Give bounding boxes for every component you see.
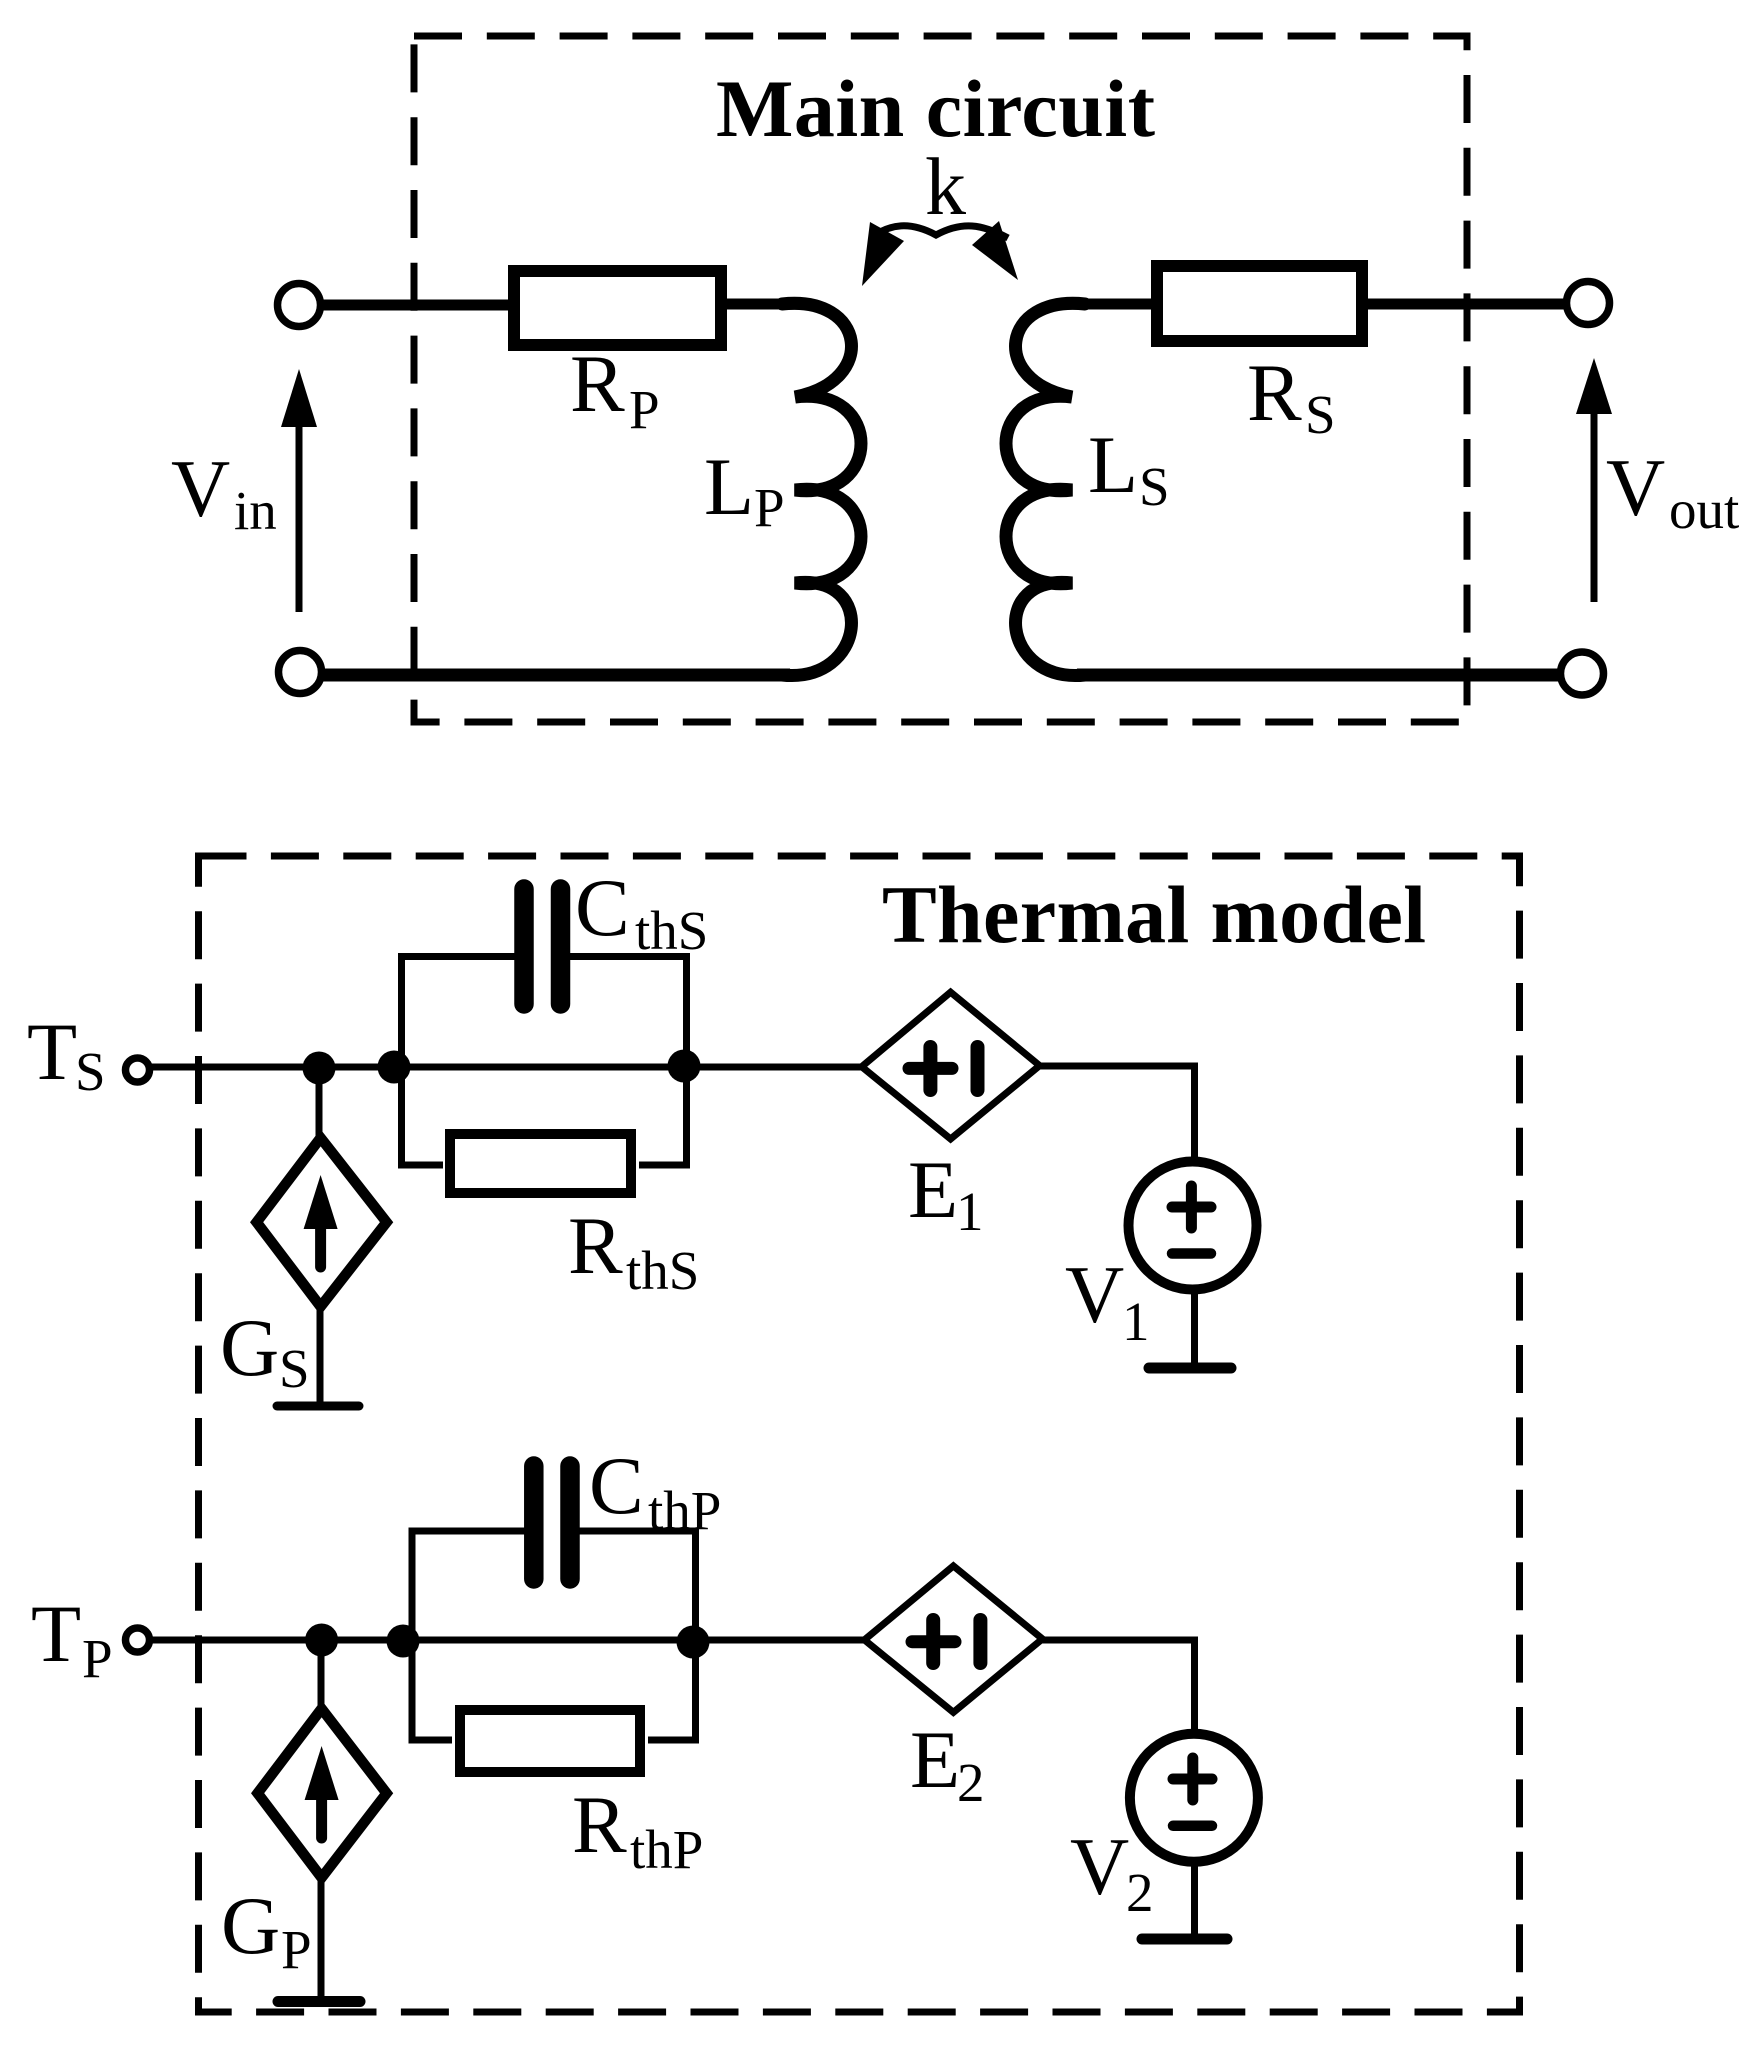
svg-text:L: L	[704, 441, 754, 532]
svg-text:T: T	[27, 1006, 77, 1097]
current source GP	[258, 1709, 387, 1878]
value label R_P	[570, 338, 660, 440]
value label C_thP	[589, 1440, 721, 1541]
svg-text:thS: thS	[635, 900, 708, 961]
wire V2 to ground	[1191, 1861, 1198, 1934]
wire V1 to ground	[1191, 1289, 1198, 1363]
resistor RP	[514, 271, 721, 345]
svg-text:T: T	[31, 1588, 81, 1679]
wire bottom-left	[322, 669, 790, 682]
svg-text:C: C	[589, 1440, 644, 1531]
label V_2	[1070, 1821, 1154, 1923]
ground (GS)	[277, 1402, 359, 1411]
svg-text:2: 2	[957, 1752, 985, 1813]
capacitor CthS plates	[514, 889, 534, 1004]
svg-text:V: V	[171, 443, 230, 534]
svg-text:S: S	[279, 1338, 310, 1399]
svg-text:1: 1	[956, 1181, 984, 1242]
terminal TP	[126, 1628, 150, 1652]
capacitor CthP plates	[524, 1466, 544, 1579]
value label R_thS	[568, 1200, 699, 1301]
resistor RthS	[450, 1134, 631, 1193]
junction node TS/GS	[303, 1052, 336, 1085]
svg-text:in: in	[234, 480, 277, 541]
ground (GP)	[278, 1996, 360, 2007]
controlled source E1	[862, 992, 1040, 1139]
junction node RC-right (S)	[668, 1050, 701, 1083]
wire bottom-right	[1077, 669, 1561, 682]
svg-text:S: S	[75, 1041, 106, 1102]
svg-text:E: E	[908, 1144, 958, 1235]
svg-text:G: G	[220, 1302, 279, 1393]
svg-text:out: out	[1669, 479, 1739, 540]
controlled source E2	[864, 1566, 1042, 1712]
inductor LP	[782, 303, 861, 675]
svg-text:P: P	[82, 1628, 113, 1689]
svg-text:S: S	[1139, 456, 1170, 517]
current source GS	[257, 1138, 387, 1307]
svg-text:R: R	[570, 338, 625, 429]
svg-text:C: C	[575, 862, 630, 953]
value label C_thS	[575, 862, 708, 961]
value label R_S	[1247, 347, 1336, 445]
value label R_thP	[572, 1779, 703, 1880]
wire GP to ground	[318, 1877, 325, 1997]
svg-text:L: L	[1088, 419, 1138, 510]
label G_P	[221, 1880, 312, 1980]
svg-text:R: R	[568, 1200, 623, 1291]
source V1	[1129, 1162, 1257, 1290]
svg-text:P: P	[754, 477, 785, 538]
svg-text:k: k	[925, 141, 966, 232]
terminal TS	[126, 1058, 150, 1082]
terminal bottom-right	[1561, 652, 1604, 695]
resistor RthP	[460, 1710, 640, 1772]
junction node TP/GP	[305, 1624, 338, 1657]
value label L_S	[1088, 419, 1170, 517]
svg-text:thS: thS	[626, 1240, 699, 1301]
node TP label	[31, 1588, 113, 1689]
terminal bottom-left	[279, 651, 322, 694]
label E_2	[910, 1714, 985, 1813]
junction node RC-right (P)	[677, 1626, 710, 1659]
svg-text:V: V	[1065, 1249, 1124, 1340]
svg-text:P: P	[629, 379, 660, 440]
svg-text:R: R	[1247, 347, 1302, 438]
junction node RC-left (P)	[387, 1625, 420, 1658]
label E_1	[908, 1144, 984, 1242]
coupling arrow k	[862, 221, 1018, 286]
Vin arrow	[281, 369, 317, 612]
svg-text:S: S	[1305, 384, 1336, 445]
wire TS to E1	[150, 1064, 863, 1071]
svg-text:V: V	[1606, 442, 1665, 533]
value label L_P	[704, 441, 785, 538]
ground (V1)	[1149, 1363, 1231, 1374]
svg-text:P: P	[281, 1919, 312, 1980]
svg-text:2: 2	[1126, 1862, 1154, 1923]
wire TS node to GS	[316, 1068, 323, 1140]
node TS label	[27, 1006, 106, 1102]
source V2	[1130, 1734, 1258, 1862]
dashed box Thermal model	[199, 856, 1520, 2012]
resistor RS	[1157, 266, 1362, 341]
wire LS to RS	[1075, 299, 1157, 310]
RC loop wires (S)	[402, 957, 687, 1166]
label V_1	[1065, 1249, 1150, 1352]
wire TP to E2	[150, 1637, 866, 1644]
wire TP node to GP	[318, 1641, 325, 1711]
svg-text:thP: thP	[630, 1819, 703, 1880]
dashed box Main circuit	[414, 36, 1467, 722]
wire E2 to V2	[1042, 1640, 1194, 1735]
ground (V2)	[1142, 1934, 1227, 1945]
terminal top-right	[1567, 282, 1610, 325]
svg-text:1: 1	[1122, 1291, 1150, 1352]
junction node RC-left (S)	[378, 1051, 411, 1084]
wire GS to ground	[317, 1306, 324, 1402]
svg-text:E: E	[910, 1714, 960, 1805]
svg-text:Thermal model: Thermal model	[882, 869, 1426, 960]
wire top-left	[323, 300, 514, 311]
label V_out	[1606, 442, 1739, 540]
label V_in	[171, 443, 277, 541]
terminal top-left	[278, 284, 321, 327]
wire RP to LP	[727, 299, 792, 310]
svg-text:V: V	[1070, 1821, 1129, 1912]
inductor LS	[1006, 303, 1085, 675]
RC loop wires (P)	[412, 1531, 696, 1740]
svg-text:R: R	[572, 1779, 627, 1870]
Vout arrow	[1576, 358, 1612, 602]
wire RS to terminal	[1362, 299, 1567, 310]
svg-text:G: G	[221, 1880, 280, 1971]
svg-text:thP: thP	[648, 1480, 721, 1541]
wire E1 to V1	[1040, 1066, 1195, 1162]
label G_S	[220, 1302, 310, 1399]
